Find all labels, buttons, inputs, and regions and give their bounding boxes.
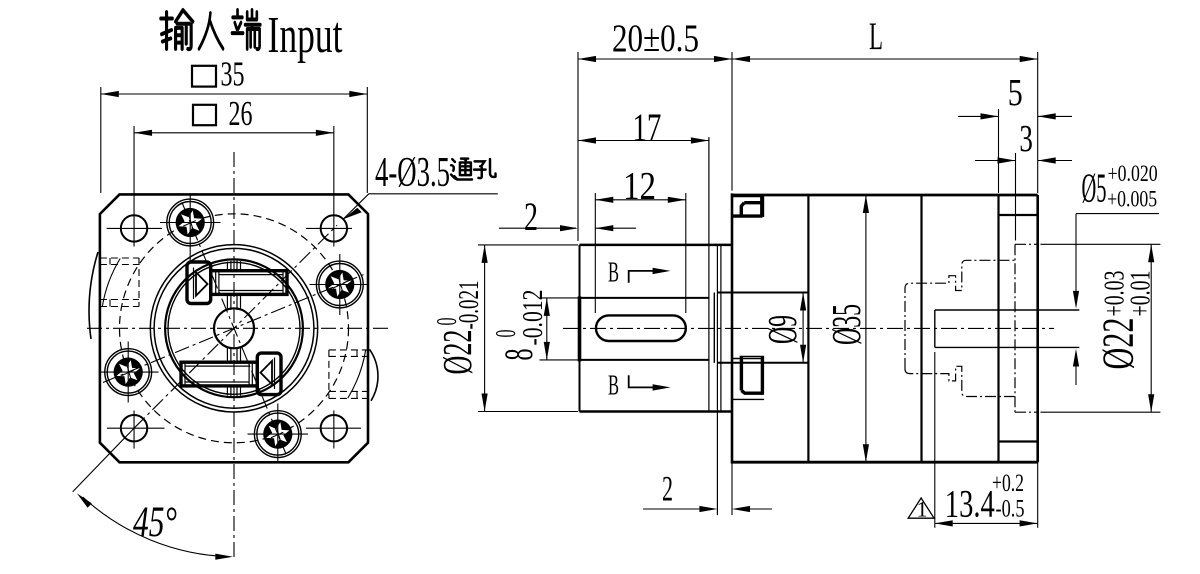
body right face bbox=[1036, 195, 1039, 462]
dim phi22 left line bbox=[484, 245, 486, 412]
center bore circle bbox=[165, 259, 303, 397]
dim 12 extension lines bbox=[594, 193, 596, 313]
dim phi9 line bbox=[802, 293, 804, 363]
dim sq35 line bbox=[101, 93, 368, 95]
svg-text:Ø22: Ø22 bbox=[1094, 318, 1143, 370]
phantom internal outline upper bbox=[905, 244, 1038, 412]
dim phi22 right extension lines bbox=[1041, 243, 1161, 245]
dim 3 extension line bbox=[1015, 153, 1017, 241]
svg-text:20±0.5: 20±0.5 bbox=[612, 17, 699, 60]
screw centerline crosses bbox=[100, 195, 368, 463]
corner hole bottom-right bbox=[321, 415, 347, 441]
svg-text:L: L bbox=[869, 15, 883, 58]
input bore bottom line bbox=[580, 359, 709, 361]
center boss circle outer bbox=[150, 245, 317, 412]
hanzi shu (input) char 1 bbox=[161, 10, 193, 49]
output bore top line bbox=[935, 309, 1080, 311]
bore depth edge bbox=[708, 137, 710, 411]
hidden slot left (dashed) bbox=[100, 258, 139, 307]
svg-text:B: B bbox=[608, 257, 619, 288]
bottom screw pocket outline bbox=[732, 356, 764, 399]
bottom screw section (thick) bbox=[741, 356, 762, 394]
boss arc through left slot bbox=[102, 259, 120, 307]
dim 8 extension lines bbox=[540, 297, 579, 299]
diagonal 45deg centerline BL-TR bbox=[134, 225, 337, 428]
top screw section (thick) bbox=[732, 197, 763, 217]
dim L line bbox=[732, 58, 1038, 60]
svg-text:Input: Input bbox=[268, 7, 343, 64]
hanzi tong (through) label bbox=[451, 159, 472, 180]
input boss face thick bore segment bbox=[578, 296, 582, 361]
dim 45deg arc bbox=[83, 497, 229, 557]
body left face extension below bbox=[731, 463, 733, 515]
center bore inner ring bbox=[168, 262, 300, 394]
text phi9 rotated bbox=[759, 315, 805, 344]
socket cap screw lower (head right, shaft left) bbox=[181, 353, 281, 395]
dim sq26 square symbol bbox=[193, 105, 216, 125]
end cap step bottom bbox=[999, 440, 1038, 442]
corner hole top-left bbox=[121, 215, 147, 241]
svg-text:8: 8 bbox=[496, 349, 541, 361]
svg-text:+0.2: +0.2 bbox=[992, 470, 1024, 497]
hub top line bbox=[717, 292, 808, 294]
torx screw left (at 202.5 deg) bbox=[105, 349, 152, 396]
svg-text:0: 0 bbox=[432, 318, 463, 326]
left protruding arc (hidden boss behind plate, left) bbox=[89, 252, 98, 339]
svg-text:1: 1 bbox=[917, 497, 928, 522]
svg-text:4-Ø3.5: 4-Ø3.5 bbox=[375, 150, 450, 196]
main axis centerline bbox=[563, 327, 1054, 329]
svg-text:+0.005: +0.005 bbox=[1107, 187, 1157, 212]
svg-text:Ø35: Ø35 bbox=[823, 304, 869, 345]
dim 5 line bbox=[958, 115, 999, 117]
section mark B upper bbox=[629, 271, 653, 283]
hanzi ru (input) char 2 bbox=[199, 13, 223, 49]
torx screw top (at 112.5 deg) bbox=[167, 199, 214, 246]
input bore top line bbox=[580, 297, 709, 299]
corner hole top-right bbox=[321, 215, 347, 241]
horizontal centerline bbox=[87, 327, 391, 329]
svg-text:12: 12 bbox=[623, 165, 656, 208]
svg-text:-0.012: -0.012 bbox=[518, 290, 549, 346]
hidden slot right (dashed) bbox=[329, 350, 368, 399]
svg-text:3: 3 bbox=[1019, 118, 1033, 160]
dim 8 line bbox=[546, 298, 548, 360]
svg-text:2: 2 bbox=[524, 194, 538, 239]
upper screw thread lines bbox=[216, 271, 283, 295]
right protruding arc (hidden boss behind plate, right) bbox=[370, 349, 378, 401]
boss step line 1 bbox=[716, 245, 718, 515]
svg-text:5: 5 bbox=[1008, 72, 1023, 114]
end cap joint bbox=[997, 196, 999, 461]
diagonal centerline 22.5deg through left+right screws bbox=[103, 274, 365, 383]
vertical centerline bbox=[233, 152, 235, 558]
carrier slot verticals bbox=[227, 261, 240, 397]
upper screw socket chevron bbox=[196, 272, 208, 295]
dim sq35 extension lines bbox=[100, 87, 102, 193]
corner hole bottom-left bbox=[121, 415, 147, 441]
text 8 rotated bbox=[491, 290, 549, 361]
section joint 1 bbox=[807, 196, 809, 461]
dim phi22 left extension lines bbox=[478, 244, 578, 246]
bolt circle (dashed) bbox=[120, 214, 349, 443]
svg-text:Ø22: Ø22 bbox=[434, 330, 480, 375]
boss arc through right slot bbox=[348, 350, 366, 398]
dim sq35 square symbol bbox=[192, 66, 216, 87]
section joint 2 bbox=[920, 196, 922, 461]
input boss bottom edge bbox=[580, 410, 733, 413]
svg-text:17: 17 bbox=[632, 106, 661, 149]
torx screw right (at 22.5 deg) bbox=[316, 261, 363, 308]
dim 13.4 line bbox=[935, 522, 1038, 524]
diagonal centerline 67.5deg through top+bottom screws bbox=[182, 203, 286, 455]
lower screw thread lines bbox=[185, 362, 252, 386]
socket cap screw upper (head left, shaft right) bbox=[187, 262, 287, 304]
text phi22 left rotated bbox=[432, 281, 485, 375]
dim sq26 line bbox=[134, 132, 334, 134]
text phi22 right rotated bbox=[1094, 271, 1157, 370]
boss step line 2 bbox=[720, 245, 722, 412]
dim 12 line bbox=[595, 199, 686, 201]
dim 20 and L extension lines bbox=[577, 52, 579, 241]
top screw recess outline bbox=[732, 197, 763, 218]
dim 5 extension line bbox=[998, 109, 1000, 193]
svg-text:45°: 45° bbox=[133, 499, 177, 546]
center hole bbox=[214, 308, 254, 348]
label phi5 leader bbox=[1076, 213, 1159, 215]
hub bottom line bbox=[717, 362, 808, 364]
lower screw socket chevron bbox=[261, 361, 273, 384]
hub front edge bbox=[713, 293, 715, 363]
hanzi duan (end) char 3 bbox=[232, 10, 260, 49]
torx screw bottom (at 292.5 deg) bbox=[254, 411, 301, 458]
input boss face bbox=[579, 245, 581, 412]
text phi35 rotated bbox=[823, 304, 869, 345]
svg-text:2: 2 bbox=[662, 469, 673, 509]
svg-text:Ø5: Ø5 bbox=[1082, 165, 1107, 211]
corner hole centerline crosses bbox=[107, 228, 361, 448]
svg-text:-0.5: -0.5 bbox=[996, 496, 1025, 523]
body left face bbox=[731, 193, 734, 463]
svg-text:0: 0 bbox=[491, 330, 522, 338]
dim 13.4 extension lines bbox=[934, 352, 936, 528]
dim 2 bottom bbox=[643, 508, 715, 510]
keyway slot bbox=[596, 315, 686, 341]
dim phi35 line bbox=[865, 195, 867, 462]
output bore bottom line bbox=[935, 346, 1080, 348]
dim sq26 extension lines bbox=[133, 126, 135, 247]
svg-text:13.4: 13.4 bbox=[945, 483, 995, 526]
svg-text:B: B bbox=[608, 370, 619, 401]
body top edge bbox=[731, 194, 1038, 197]
output bore end edge bbox=[934, 310, 936, 347]
diagonal 45deg solid extension to lower-left bbox=[73, 428, 134, 492]
front plate octagonal outline bbox=[100, 194, 368, 462]
dim phi22 right line bbox=[1150, 244, 1152, 412]
svg-text:+0.01: +0.01 bbox=[1126, 271, 1157, 317]
dim 3 line bbox=[975, 160, 1016, 162]
body bottom edge bbox=[731, 461, 1038, 464]
svg-text:Ø9: Ø9 bbox=[759, 315, 805, 344]
dim 17 line bbox=[578, 140, 709, 142]
end cap step top bbox=[999, 214, 1038, 216]
label 4-phi3.5 leader bbox=[343, 194, 498, 219]
center boss circle chamfer bbox=[154, 248, 314, 408]
section mark B lower bbox=[629, 375, 653, 387]
svg-text:35: 35 bbox=[221, 55, 245, 94]
hanzi kong (hole) label bbox=[474, 159, 495, 178]
dim 20 line bbox=[578, 58, 732, 60]
dim 2 upper bbox=[499, 227, 576, 229]
warning triangle bbox=[908, 498, 934, 518]
svg-text:26: 26 bbox=[229, 94, 253, 133]
svg-text:+0.020: +0.020 bbox=[1108, 161, 1158, 186]
input boss top edge bbox=[580, 244, 731, 247]
